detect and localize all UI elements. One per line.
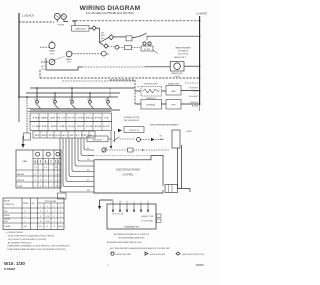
- svg-text:C1: C1: [34, 99, 36, 101]
- svg-text:SOL: SOL: [67, 62, 71, 64]
- svg-text:3: 3: [54, 206, 55, 208]
- svg-text:RINSE: RINSE: [4, 215, 10, 217]
- wire thermostat down: [96, 28, 99, 42]
- svg-text:2: 2: [24, 211, 25, 213]
- svg-text:FILL: FILL: [41, 66, 45, 68]
- svg-text:4: 4: [50, 186, 51, 188]
- svg-text:1: 1: [55, 174, 56, 176]
- svg-text:R: R: [126, 201, 128, 203]
- wire contact row bottom: [30, 109, 120, 111]
- svg-text:B: B: [147, 201, 149, 203]
- keypad pin 4: [133, 201, 135, 211]
- svg-text:Y: Y: [140, 201, 142, 203]
- wire L1 to thermal breaker (dashed): [19, 21, 54, 23]
- svg-text:4 B: 4 B: [24, 226, 28, 228]
- svg-text:1: 1: [53, 221, 54, 223]
- wire L1 left rail: [18, 13, 20, 97]
- svg-text:SEE NOTE 3: SEE NOTE 3: [174, 57, 187, 59]
- timer cam switch 5: [105, 97, 112, 109]
- svg-text:SOL: SOL: [50, 53, 54, 55]
- svg-text:4: 4: [35, 174, 36, 176]
- svg-text:2: 2: [53, 211, 54, 213]
- svg-text:CONTACTS: CONTACTS: [4, 203, 15, 206]
- svg-text:FL SW: FL SW: [144, 49, 150, 51]
- svg-text:L-BRN: L-BRN: [186, 131, 192, 133]
- svg-text:AS VIEWED A KEYBOARD SIMPLE LI: AS VIEWED A KEYBOARD SIMPLE LIGHT: [107, 241, 143, 244]
- wire bus B: [26, 92, 120, 94]
- svg-text:L2 WHITE: L2 WHITE: [196, 13, 207, 16]
- svg-text:C2: C2: [52, 99, 54, 101]
- relay contacts chart: [3, 198, 64, 230]
- svg-text:WASH: WASH: [66, 58, 72, 61]
- svg-text:4: 4: [59, 186, 60, 188]
- svg-text:5: 5: [55, 180, 56, 182]
- svg-text:R: R: [55, 161, 57, 163]
- keypad pin 1: [112, 201, 115, 211]
- wire heater to right rail: [184, 65, 200, 67]
- svg-text:p: p: [107, 265, 109, 267]
- svg-text:4: 4: [59, 174, 60, 176]
- svg-text:TB TM: TB TM: [58, 24, 65, 26]
- legend child symbol: [176, 252, 204, 256]
- svg-text:3: 3: [60, 211, 61, 213]
- electronic control U1: [94, 156, 163, 193]
- svg-text:RELAY: RELAY: [4, 200, 11, 203]
- svg-text:RD-WH: RD-WH: [192, 105, 199, 107]
- svg-text:656987: 656987: [196, 264, 205, 267]
- svg-text:3 9: 3 9: [46, 216, 49, 218]
- console edge drops: [111, 131, 115, 147]
- svg-text:9: 9: [60, 216, 61, 218]
- svg-text:5: 5: [50, 174, 51, 176]
- svg-text:SOIL: SOIL: [4, 221, 8, 223]
- svg-text:SW (OP 3): SW (OP 3): [129, 130, 138, 132]
- svg-text:ORG-BLK: ORG-BLK: [190, 102, 199, 104]
- wire long dashed bus: [40, 70, 200, 78]
- svg-text:For Models DU7503B and DU7511: For Models DU7503B and DU7511: [86, 11, 135, 15]
- svg-text:WITH KEYBOARD REMOVED: WITH KEYBOARD REMOVED: [119, 237, 146, 240]
- svg-text:DRAIN: DRAIN: [49, 50, 56, 53]
- rinse option arrow: [118, 129, 122, 133]
- svg-text:e STROKE TIMINGS: e STROKE TIMINGS: [6, 232, 24, 234]
- svg-text:WAX: WAX: [171, 90, 176, 93]
- svg-text:2: 2: [47, 206, 48, 208]
- control output box: [165, 185, 178, 193]
- svg-text:C5: C5: [105, 99, 107, 101]
- svg-text:BI-METAL: BI-METAL: [147, 104, 156, 107]
- ribbon wire 3: [78, 138, 94, 161]
- svg-text:WATER HEATER: WATER HEATER: [175, 47, 191, 50]
- svg-text:WATER HTR: WATER HTR: [171, 72, 183, 75]
- svg-text:4: 4: [35, 180, 36, 182]
- svg-text:3: 3: [45, 174, 46, 176]
- legend box symbol: [145, 252, 165, 256]
- dispenser detergent box: [141, 84, 162, 96]
- svg-text:4: 4: [59, 180, 60, 182]
- svg-text:VALUES: VALUES: [17, 173, 25, 176]
- solenoid drain SOL: [49, 42, 55, 48]
- svg-text:4 B: 4 B: [46, 221, 50, 223]
- svg-text:WITH RELAY: WITH RELAY: [45, 200, 57, 203]
- wire L1 top feed (dashed to right rail): [72, 20, 200, 22]
- svg-text:ELECTRONIC RANGE: ELECTRONIC RANGE: [116, 169, 140, 172]
- keypad membrane box: [107, 204, 156, 229]
- wire control drops: [178, 145, 191, 192]
- timer terminal label row 2: [30, 122, 112, 131]
- svg-text:HIGH TEMPERATURE WASHER: HIGH TEMPERATURE WASHER: [150, 123, 179, 126]
- svg-text:BK: BK: [87, 148, 90, 150]
- thermal breaker TB: [54, 13, 60, 19]
- ribbon wire 2: [81, 138, 94, 156]
- svg-text:9: 9: [40, 216, 41, 218]
- wire bus A: [30, 87, 135, 89]
- solenoid fill circle: [49, 59, 55, 65]
- wire contact row lower: [28, 109, 112, 112]
- ribbon wire 4: [75, 138, 94, 166]
- rinse option switch box: [124, 127, 144, 133]
- wire extender row (dashed): [108, 46, 115, 48]
- ribbon wire 7: [66, 138, 94, 182]
- svg-text:DRAIN SOL: DRAIN SOL: [146, 97, 156, 100]
- thermostat diamond T1: [92, 26, 96, 30]
- svg-text:GY: GY: [87, 180, 90, 182]
- svg-text:PUR-WHT: PUR-WHT: [190, 87, 199, 89]
- ribbon wire 1: [84, 138, 94, 150]
- svg-text:4 B: 4 B: [39, 226, 43, 228]
- svg-text:700 WATTS: 700 WATTS: [178, 50, 189, 53]
- svg-text:TO DOOR SW: TO DOOR SW: [141, 221, 153, 223]
- wire dashed drop to box: [26, 97, 28, 133]
- timer sequence chart: [16, 150, 61, 188]
- wire L2 right rail: [199, 16, 201, 105]
- high temp switch frame: [172, 130, 180, 148]
- svg-text:SHOW LATCH SW: SHOW LATCH SW: [116, 253, 132, 256]
- wire dotted divider: [88, 155, 164, 157]
- svg-text:SOL: SOL: [41, 69, 45, 71]
- timer cam switch 4: [87, 93, 94, 109]
- svg-text:L1 BLACK: L1 BLACK: [22, 13, 34, 17]
- svg-text:L S: L S: [34, 167, 36, 169]
- ground arrow: [22, 136, 24, 144]
- svg-text:CAM: CAM: [22, 160, 27, 163]
- wire latch to right rail: [147, 35, 200, 37]
- svg-text:SHOW 1 BOX SW: SHOW 1 BOX SW: [150, 254, 165, 256]
- svg-text:4: 4: [55, 186, 56, 188]
- svg-text:RELAY BD: RELAY BD: [93, 138, 103, 141]
- svg-text:RD: RD: [87, 170, 90, 172]
- switch door latch blade: [138, 33, 147, 37]
- dispenser feed wires: [110, 80, 135, 104]
- svg-text:4: 4: [50, 180, 51, 182]
- heater water box HTR: [170, 62, 184, 72]
- svg-text:CONTROL: CONTROL: [122, 175, 134, 177]
- ribbon connector P5: [58, 193, 67, 199]
- switch door interlock (diamond): [109, 35, 114, 40]
- wire stub to rail: [185, 82, 200, 84]
- wire heater run: [46, 58, 82, 70]
- svg-text:2: 2: [35, 186, 36, 188]
- wire rail lower stub: [18, 97, 20, 122]
- svg-text:6-56987: 6-56987: [4, 267, 16, 271]
- svg-text:1: 1: [24, 216, 25, 218]
- svg-text:BK: BK: [112, 201, 115, 203]
- svg-text:OP-: OP-: [159, 136, 163, 138]
- motor start circle: [101, 51, 106, 56]
- interlock contact box: [126, 36, 132, 41]
- svg-text:LIGHT: LIGHT: [159, 139, 165, 141]
- wire mid row with switch: [102, 147, 169, 153]
- svg-text:W10. 1/30: W10. 1/30: [4, 261, 25, 266]
- switch timer SW box: [72, 26, 90, 32]
- wire to door latch switch: [132, 37, 138, 38]
- svg-text:SHOW CHILD SW (2 POS): SHOW CHILD SW (2 POS): [182, 254, 204, 256]
- keypad pin 3: [126, 201, 128, 211]
- svg-text:WH: WH: [87, 190, 91, 192]
- ribbon wire 8: [63, 138, 94, 187]
- svg-text:3: 3: [47, 211, 48, 213]
- legend latch symbol: [111, 252, 131, 256]
- svg-text:C3: C3: [69, 99, 71, 101]
- svg-text:L S: L S: [45, 167, 47, 169]
- timer cam switch 1: [34, 88, 41, 109]
- svg-text:MS: MS: [107, 54, 110, 56]
- ribbon wire 5: [72, 138, 94, 172]
- svg-text:3: 3: [40, 180, 41, 182]
- svg-text:1: 1: [40, 174, 41, 176]
- svg-text:TM BK W R V GY OR BU PK YL: TM BK W R V GY OR BU PK YL: [32, 118, 110, 120]
- wire timer to thermostat: [89, 27, 92, 29]
- switch cycle extender (diamond): [100, 43, 104, 46]
- svg-text:GY 2 LP 1 LA: GY 2 LP 1 LA: [112, 213, 124, 216]
- svg-text:2: 2: [40, 211, 41, 213]
- keypad feed arrow: [100, 200, 114, 206]
- svg-text:4: 4: [45, 186, 46, 188]
- svg-text:LED IT SLIGHT LOW SUB SHEET (7: LED IT SLIGHT LOW SUB SHEET (70 S NOW): [8, 239, 46, 241]
- svg-text:CW M1 M2 HD FD W2 DS RS HT: CW M1 M2 HD FD W2 DS RS HT: [32, 126, 112, 128]
- svg-text:4: 4: [60, 221, 61, 223]
- svg-text:MEMBRANE SW: MEMBRANE SW: [124, 225, 139, 228]
- svg-text:4 RINSE OPTION: 4 RINSE OPTION: [124, 117, 140, 119]
- ribbon wire 9: [60, 138, 94, 192]
- svg-text:NOTE IN THE FILM FULL SEAL SWI: NOTE IN THE FILM FULL SEAL SWITCH PULL T…: [8, 235, 54, 238]
- svg-text:DISP: DISP: [171, 105, 176, 107]
- svg-text:OR: OR: [87, 159, 90, 161]
- timer terminal strip: [33, 131, 95, 138]
- svg-text:H SELECT SW: H SELECT SW: [141, 216, 153, 218]
- wire to interlock contact: [114, 36, 126, 38]
- svg-text:OVEN: OVEN: [17, 186, 23, 188]
- switch float SW: [141, 36, 158, 53]
- svg-text:DETERG DISP: DETERG DISP: [144, 84, 158, 86]
- svg-text:B1 W2 R3 V4 G5 O6 U7 P8 Y9: B1 W2 R3 V4 G5 O6 U7 P8 Y9: [35, 135, 92, 137]
- svg-text:COMPONENT SCHEMATIC DO NOT NEG: COMPONENT SCHEMATIC DO NOT NEGLECT THIS …: [7, 245, 70, 248]
- relay board box: [87, 136, 108, 142]
- svg-text:COMPONENTS ARE SHOWN IN OFF OR: COMPONENTS ARE SHOWN IN OFF OR RELAXED P…: [7, 248, 66, 251]
- junction box small: [24, 133, 31, 140]
- console drop arrowhead: [110, 146, 113, 149]
- svg-text:4: 4: [40, 186, 41, 188]
- svg-text:2: 2: [24, 221, 25, 223]
- svg-text:TH: TH: [137, 86, 140, 88]
- svg-text:4: 4: [47, 226, 48, 228]
- svg-text:CLEAN: CLEAN: [4, 225, 11, 228]
- wire branch to timer switch: [73, 20, 76, 26]
- svg-text:BE ORDERED IF SLIM (150): BE ORDERED IF SLIM (150): [8, 242, 32, 244]
- svg-text:W: W: [35, 161, 37, 163]
- svg-text:AS VIEWED FROM BACK OF CONSOLE: AS VIEWED FROM BACK OF CONSOLE: [114, 233, 150, 236]
- keypad right leader boxes: [157, 214, 162, 217]
- svg-text:SW VIEW FROM: SW VIEW FROM: [124, 120, 139, 122]
- keypad pin 5: [140, 201, 142, 211]
- svg-text:120 VOLTS: 120 VOLTS: [178, 54, 189, 56]
- svg-text:OFF: OFF: [4, 211, 8, 213]
- svg-text:4: 4: [60, 206, 61, 208]
- wire relay board row: [108, 137, 163, 142]
- svg-text:B: B: [53, 226, 55, 228]
- wire dashed line B: [62, 80, 135, 82]
- ribbon wire 6: [69, 138, 94, 177]
- svg-text:3: 3: [53, 216, 54, 218]
- dispenser lower box 1: [141, 100, 162, 110]
- svg-text:SW: SW: [101, 38, 104, 40]
- svg-text:W: W: [45, 161, 47, 163]
- svg-text:BLU-WHT: BLU-WHT: [189, 96, 198, 98]
- svg-text:3: 3: [45, 180, 46, 182]
- dispenser rinse box: [166, 84, 181, 95]
- svg-text:RINSE: RINSE: [23, 203, 29, 205]
- svg-text:BKR: BKR: [101, 35, 105, 37]
- wire to door switch: [100, 38, 109, 43]
- svg-text:TIMER SW: TIMER SW: [75, 29, 85, 31]
- svg-text:V: V: [133, 201, 135, 203]
- solenoid wash circle: [66, 51, 72, 57]
- svg-text:LED: LED: [31, 203, 35, 205]
- wire bus C: [19, 96, 118, 98]
- svg-text:L-CON: L-CON: [192, 91, 198, 93]
- svg-text:LEVELS: LEVELS: [17, 180, 25, 182]
- dispenser lower box 2: [166, 100, 181, 110]
- timer cam switch 2: [52, 93, 59, 109]
- timer terminal label row: [30, 113, 112, 122]
- svg-text:CIR: CIR: [101, 32, 105, 34]
- keypad pin 6: [147, 201, 149, 211]
- svg-text:C4: C4: [87, 99, 89, 101]
- svg-text:B 4 B: B 4 B: [58, 226, 63, 228]
- svg-text:L S: L S: [55, 167, 57, 169]
- keypad pin 2: [119, 201, 121, 211]
- svg-text:4: 4: [40, 221, 41, 223]
- timer cam switch 3: [69, 88, 76, 109]
- svg-text:1: 1: [40, 206, 41, 208]
- wire wash to motor (dashed): [72, 53, 101, 55]
- svg-text:ALL PUSH LINE SWITCHES ARE AS: ALL PUSH LINE SWITCHES ARE AS SHOWN BLAC…: [110, 247, 171, 250]
